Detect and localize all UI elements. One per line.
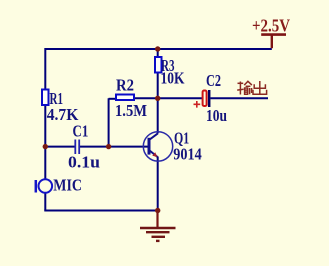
microphone MIC side bar (35, 180, 38, 193)
svg-text:10u: 10u (206, 106, 227, 125)
wire: bottom horizontal to ground node (44, 210, 157, 212)
wire: node A to C1 left plate (45, 146, 74, 148)
wire: R1 bottom to left node A (44, 105, 46, 147)
svg-text:10K: 10K (161, 69, 185, 88)
svg-text:0.1u: 0.1u (68, 152, 100, 171)
svg-text:R2: R2 (116, 75, 134, 94)
ground stem (156, 211, 158, 228)
capacitor C1 left plate (74, 140, 76, 155)
ground bar 3 (152, 236, 166, 238)
capacitor C2 right plate (208, 90, 211, 107)
wire: MIC bottom to bottom-left corner (44, 193, 46, 211)
output label 输出 (glyph chu) (253, 81, 267, 94)
ground bar 1 (140, 227, 176, 229)
transistor Q1 base bar (148, 138, 151, 155)
junction: top rail / R3 (155, 46, 160, 51)
wire: collector node down to Q1 collector (157, 98, 159, 133)
output label 输出 (glyph shu) (237, 81, 252, 94)
transistor Q1 circle (143, 132, 172, 161)
capacitor C1 right plate (78, 140, 80, 155)
svg-text:+2.5V: +2.5V (252, 16, 290, 36)
wire: mid rail from R2 to C2 left plate (134, 97, 203, 99)
transistor Q1 emitter arrow (152, 152, 157, 157)
wire: R3 top stub from top rail (157, 49, 159, 57)
wire: R3 bottom to collector node (157, 73, 159, 99)
svg-text:MIC: MIC (53, 176, 82, 195)
ground bar 2 (146, 231, 170, 233)
wire: node A down to MIC top (44, 147, 46, 180)
junction: base node (106, 144, 111, 149)
junction: ground node (155, 208, 160, 213)
wire: mid rail left segment to R2 (109, 98, 116, 100)
svg-text:C1: C1 (73, 122, 89, 141)
transistor Q1 collector diagonal (149, 133, 158, 140)
resistor R2 body (116, 95, 134, 101)
microphone MIC circle (39, 179, 53, 193)
wire: left vertical from top rail to R1 top (44, 48, 46, 90)
junction: collector node (155, 96, 160, 101)
C2 polarity plus sign (194, 101, 201, 108)
svg-text:C2: C2 (206, 71, 221, 90)
capacitor C2 left plate (polarized, red) (203, 91, 207, 107)
junction: left node at C1 branch (43, 144, 48, 149)
power +2.5V bar (261, 33, 286, 36)
wire: C1 right plate to base node B and on to Q1 base (80, 146, 149, 148)
transistor Q1 emitter diagonal (149, 150, 158, 157)
wire: top rail from left corner to +2.5V stem (45, 48, 271, 50)
wire: Q1 emitter down to ground node (157, 157, 159, 211)
svg-text:1.5M: 1.5M (115, 101, 147, 120)
power +2.5V stem (271, 35, 273, 49)
resistor R1 body (42, 90, 49, 106)
svg-text:9014: 9014 (173, 145, 201, 164)
ground bar 4 (156, 240, 160, 242)
wire: C2 right plate to output end (211, 97, 269, 99)
wire: R2 left drop from mid rail to base node B (108, 98, 110, 146)
resistor R3 body (155, 57, 162, 73)
